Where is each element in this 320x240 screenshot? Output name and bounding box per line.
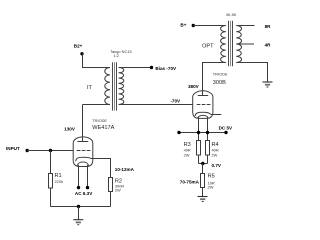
svg-text:1:2: 1:2 (114, 53, 119, 58)
wire filament leg right (87, 165, 89, 186)
U2 cathode arch (195, 112, 211, 116)
node B+ terminal dot (192, 24, 195, 27)
svg-text:10-12mA: 10-12mA (115, 167, 135, 172)
wire IT secondary top to bias terminal (119, 67, 152, 69)
ground (cathode R5) (198, 197, 208, 202)
wire input to grid of U1 (27, 150, 73, 152)
svg-text:Bias -70V: Bias -70V (155, 66, 177, 71)
triode U2 300B envelope (193, 91, 213, 119)
wire R1 top lead (50, 151, 52, 174)
transformer OPT core (229, 21, 233, 66)
svg-text:2W: 2W (212, 152, 218, 157)
svg-text:2W: 2W (208, 184, 214, 189)
svg-text:TRIODE: TRIODE (213, 72, 228, 77)
svg-text:380V: 380V (188, 84, 200, 89)
transformer IT secondary winding (119, 68, 124, 105)
svg-text:WE417A: WE417A (92, 125, 114, 131)
svg-text:-70V: -70V (170, 98, 181, 103)
wire B2+ to IT primary top (83, 54, 111, 68)
triode U1 WE417A envelope (73, 137, 93, 167)
wire OPT secondary bottom to ground (236, 63, 267, 82)
U1 filament dome (77, 162, 89, 166)
wire R3 bottom lead (198, 155, 200, 164)
wire R1 bottom lead (50, 188, 52, 207)
resistor R1 (49, 174, 53, 189)
wire U2 filament leg left (198, 117, 200, 141)
node junction rail/left leg (197, 131, 200, 134)
wire OPT secondary 8R tap (236, 25, 254, 27)
U2 plate bar (198, 95, 209, 97)
U1 plate bar (77, 141, 88, 143)
svg-text:IT: IT (87, 85, 93, 91)
svg-text:130V: 130V (64, 126, 76, 131)
node junction rail/right leg (206, 131, 209, 134)
transformer OPT secondary winding (236, 26, 241, 63)
ground (input stage) (73, 220, 83, 225)
wire bottom ground rail (51, 206, 111, 208)
transformer IT primary winding (105, 68, 110, 105)
wire filament leg left (78, 165, 80, 186)
node filament terminal right (86, 186, 89, 189)
svg-text:0.7V: 0.7V (212, 163, 222, 168)
wire DC 5V rail (179, 132, 226, 134)
wire join R3/R4 (199, 163, 208, 165)
U2 filament dome (198, 115, 209, 118)
node junction input/R1 (49, 149, 52, 152)
U2 grid (dashed) (197, 104, 211, 106)
wire IT primary bottom lead (83, 104, 111, 106)
svg-text:70-75mA: 70-75mA (180, 179, 200, 184)
wire U1 cathode to R2 (91, 159, 111, 178)
svg-text:8R: 8R (265, 24, 272, 29)
svg-text:B2+: B2+ (74, 43, 83, 48)
resistor R2 (109, 178, 113, 192)
transformer IT core (113, 62, 117, 110)
wire R5 bottom lead (202, 188, 204, 197)
svg-text:4R: 4R (265, 42, 272, 47)
svg-text:220k: 220k (55, 179, 63, 184)
svg-text:300B: 300B (213, 80, 226, 86)
ground (OPT secondary) (263, 82, 273, 87)
node bias terminal dot (150, 66, 153, 69)
node INPUT terminal dot (26, 149, 29, 152)
svg-text:DC 5V: DC 5V (219, 126, 233, 131)
svg-text:OPT: OPT (202, 44, 214, 50)
wire OPT secondary 4R tap (236, 43, 254, 45)
svg-text:B+: B+ (180, 23, 186, 28)
svg-text:R5: R5 (208, 173, 215, 179)
wire B+ to OPT primary top (193, 25, 226, 27)
svg-text:3K-5K: 3K-5K (226, 12, 237, 17)
node junction rail/ground (77, 205, 80, 208)
wire ground stub (78, 207, 80, 220)
resistor R5 (201, 174, 205, 188)
node junction R3/R4/R5 (201, 162, 204, 165)
svg-text:INPUT: INPUT (6, 146, 20, 151)
wire R4 bottom lead (207, 155, 209, 164)
wire OPT primary bottom to 300B plate (203, 63, 226, 96)
U1 grid (dashed) (77, 150, 91, 152)
node DC rail right terminal (224, 131, 227, 134)
U1 plate lead wire (from IT primary bottom, 130V) (82, 105, 84, 142)
wire U2 filament leg right (207, 117, 209, 141)
wire U2 cathode stub (211, 114, 222, 116)
resistor R4 (206, 141, 210, 156)
wire R5 top lead (202, 164, 204, 174)
wire IT secondary bottom to 300B grid (119, 104, 193, 106)
U1 cathode arch (76, 157, 91, 161)
svg-text:TRIODE: TRIODE (92, 118, 107, 123)
node DC rail left terminal (177, 131, 180, 134)
wire R2 bottom lead (110, 192, 112, 207)
node B2+ terminal dot (80, 52, 83, 55)
svg-text:2W: 2W (184, 152, 190, 157)
svg-text:AC 6.3V: AC 6.3V (75, 191, 93, 196)
resistor R3 (197, 141, 201, 156)
transformer OPT primary winding (221, 26, 226, 63)
svg-text:2W: 2W (115, 188, 121, 193)
node filament terminal left (77, 186, 80, 189)
